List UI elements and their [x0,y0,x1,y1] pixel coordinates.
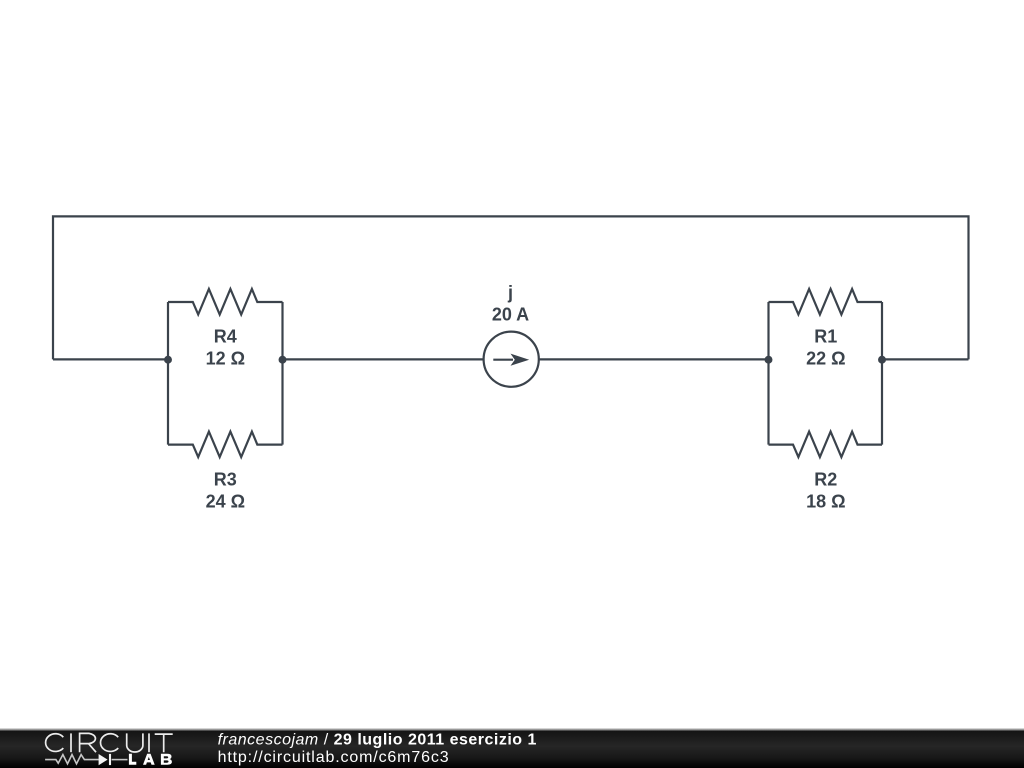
wire: left rail from outer loop to node A [53,358,168,360]
wire: left parallel-pair left vertical [167,302,169,445]
CircuitLab logo diode cathode bar [109,754,111,765]
node junction dot A [164,356,172,364]
CircuitLab logo word CIRCUIT [46,733,173,752]
svg-text:18 Ω: 18 Ω [806,491,845,511]
node junction dot B [279,356,287,364]
resistor R1 zigzag [769,289,883,315]
node junction dot D [878,356,886,364]
resistor R4 zigzag [168,289,283,315]
svg-text:22 Ω: 22 Ω [806,349,845,369]
svg-text:R3: R3 [214,470,237,490]
svg-text:R1: R1 [814,327,837,347]
wire: left parallel-pair right vertical [281,302,283,445]
svg-text:20 A: 20 A [492,304,529,324]
CircuitLab logo word LAB [129,754,172,765]
resistor R2 zigzag [769,432,883,458]
CircuitLab logo resistor-diode wire [45,755,127,764]
svg-text:24 Ω: 24 Ω [206,491,245,511]
svg-text:12 Ω: 12 Ω [206,349,245,369]
svg-text:R2: R2 [814,470,837,490]
current source j arrow head [511,354,530,366]
node junction dot C [765,356,773,364]
resistor R3 zigzag [168,432,283,458]
svg-text:francescojam / 29 luglio 2011: francescojam / 29 luglio 2011 esercizio … [218,731,537,748]
wire: outer loop (left vertical, top rail, right vertical) [53,216,969,359]
wire: node D rail to outer loop right [882,358,969,360]
wire: right parallel-pair right vertical [881,302,883,445]
wire: middle rail node B to current source [283,358,484,360]
footer bar background [0,728,1024,768]
svg-text:R4: R4 [214,327,237,347]
wire: current source to node C [540,358,769,360]
current source j circle [484,332,539,387]
svg-text:http://circuitlab.com/c6m76c3: http://circuitlab.com/c6m76c3 [218,749,450,766]
svg-text:j: j [507,283,513,303]
wire: right parallel-pair left vertical [767,302,769,445]
CircuitLab logo diode triangle [99,754,108,765]
current source j arrow shaft [493,359,513,361]
